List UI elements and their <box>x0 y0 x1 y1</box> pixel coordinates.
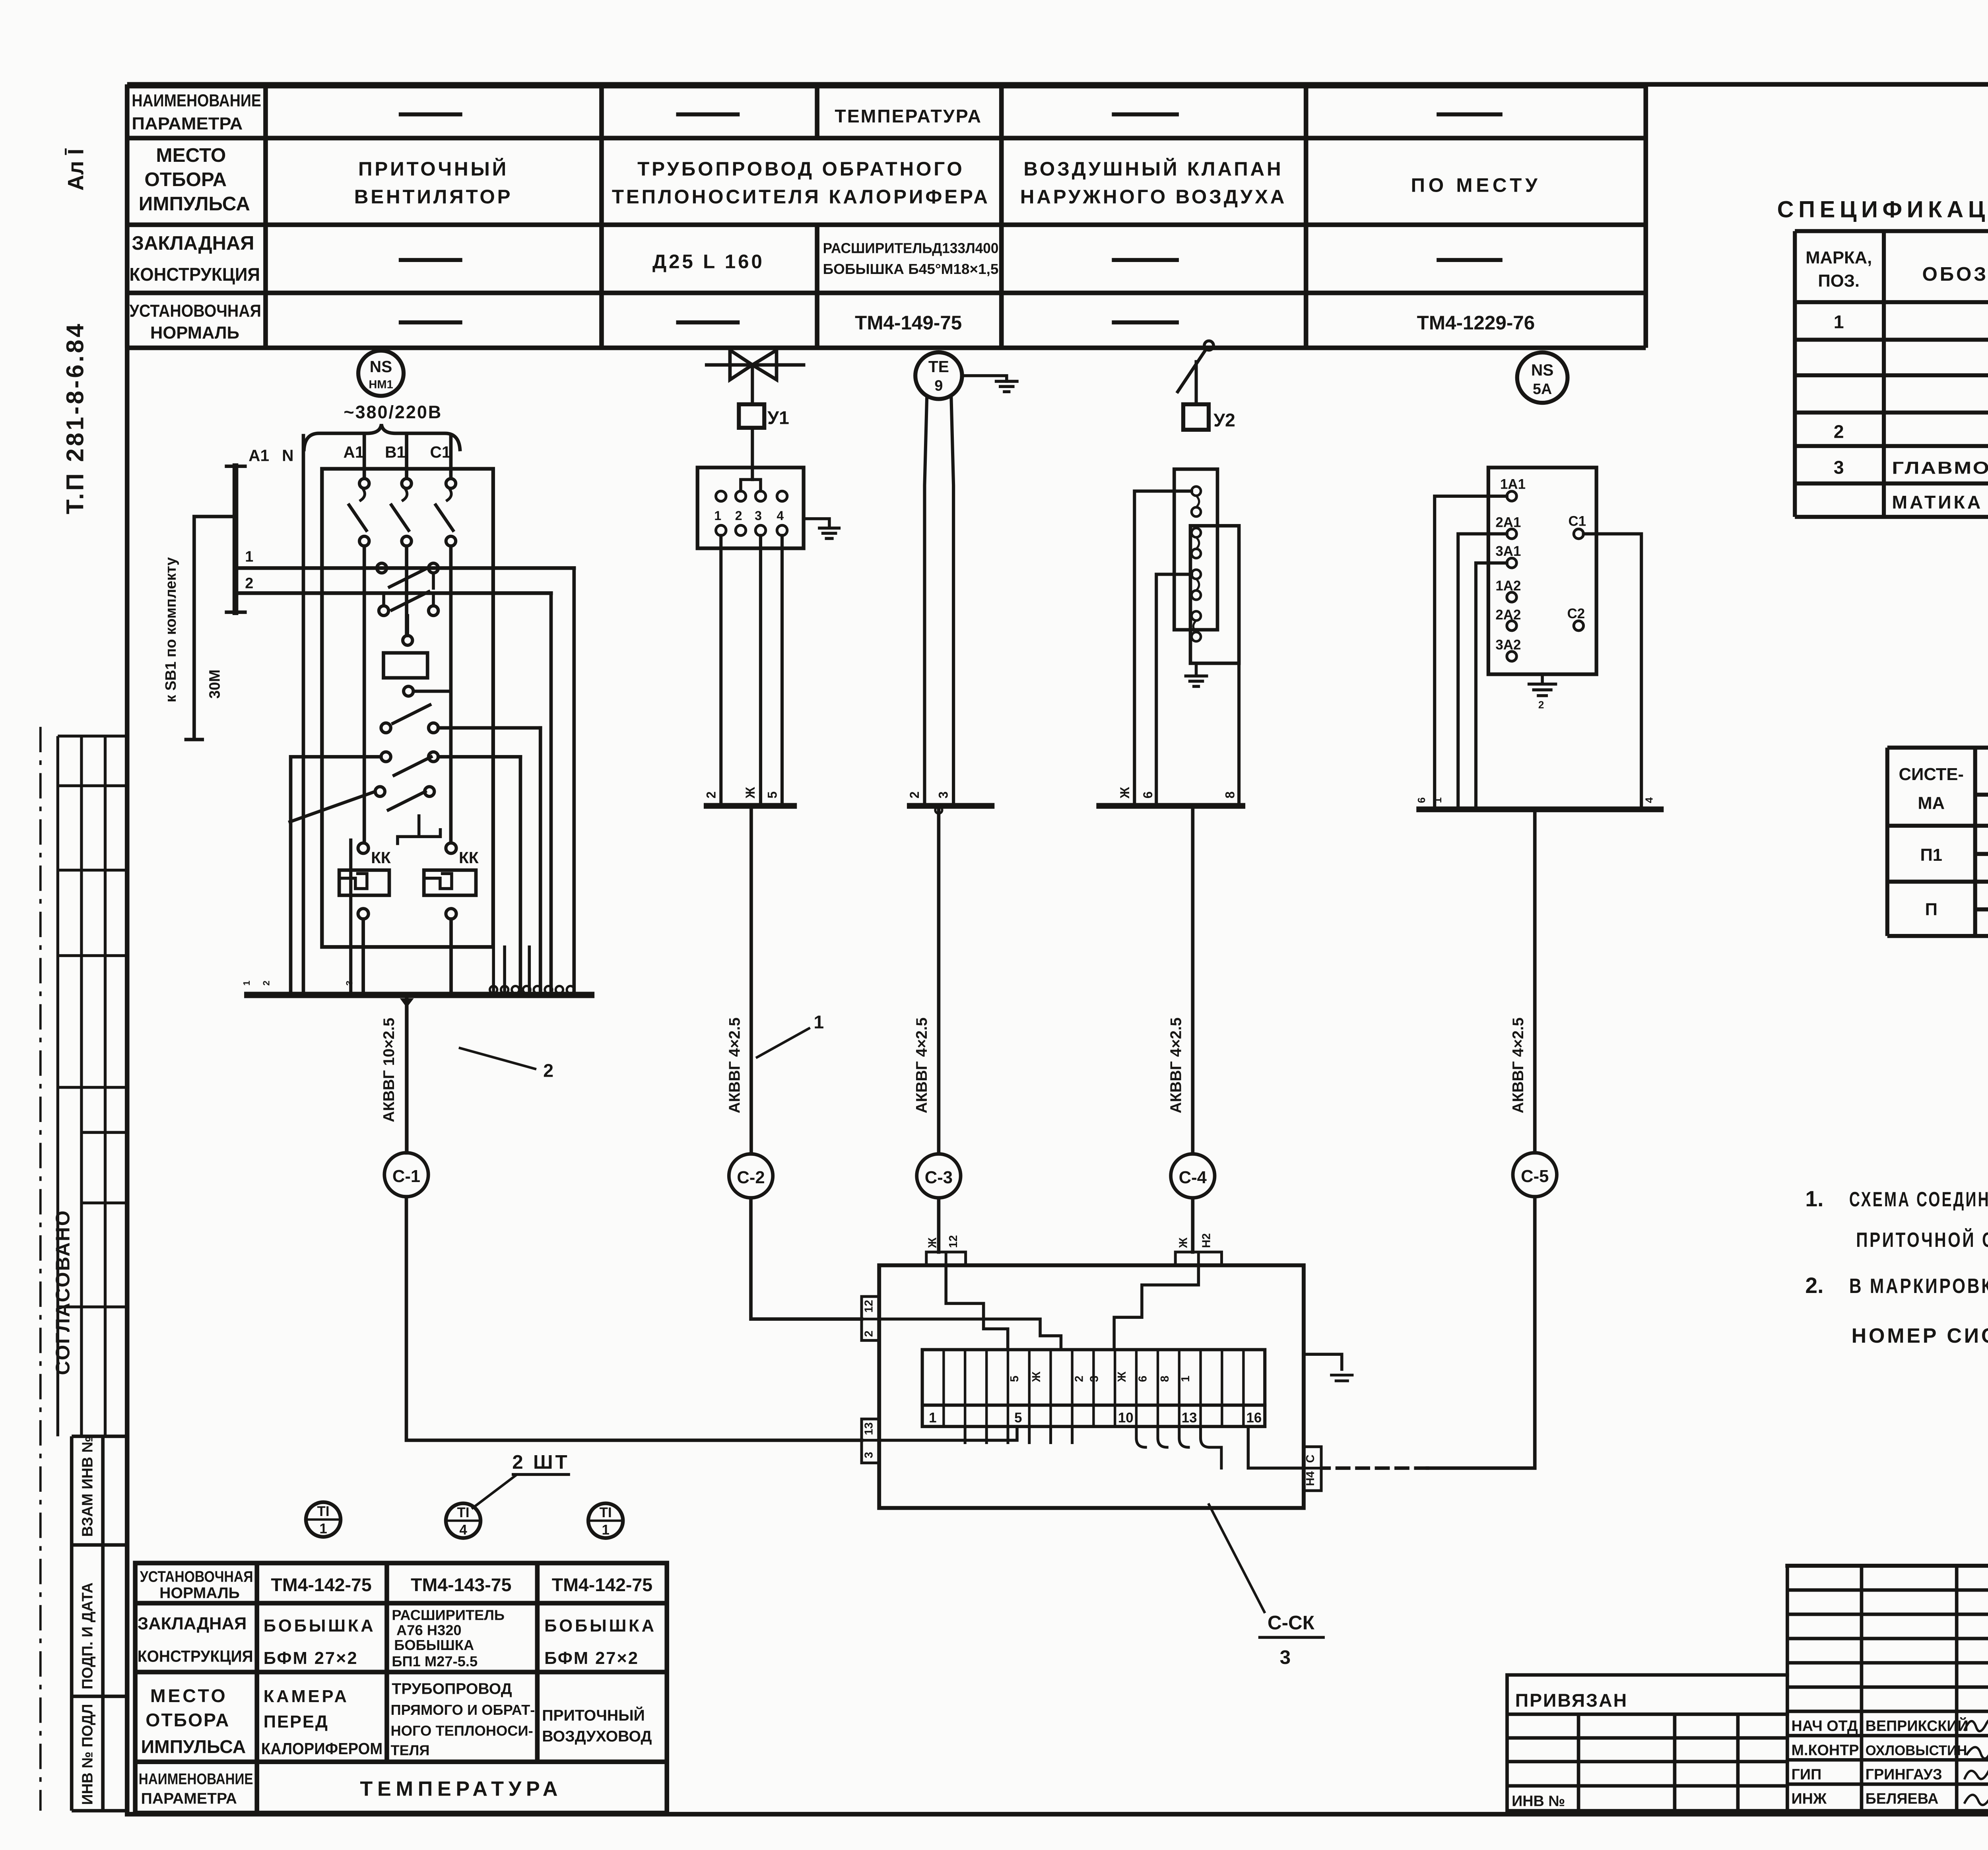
svg-text:4: 4 <box>777 509 784 523</box>
svg-text:С-СК: С-СК <box>1268 1612 1315 1634</box>
svg-text:5А: 5А <box>1533 381 1552 398</box>
svg-text:ИНВ №: ИНВ № <box>1512 1793 1565 1810</box>
sensor capillary wires down <box>924 396 953 806</box>
svg-text:С-1: С-1 <box>392 1167 420 1186</box>
terminal column box of У2 <box>1174 469 1217 630</box>
svg-text:С: С <box>1304 1454 1317 1463</box>
lower margin cells ВЗАМ ИНВ / ПОДП И ДАТА / ИНВ ПОДЛ <box>72 1437 127 1811</box>
svg-text:2: 2 <box>735 509 742 523</box>
wire pin4 down <box>782 536 783 806</box>
svg-text:1: 1 <box>241 980 252 986</box>
svg-text:3: 3 <box>344 980 355 986</box>
svg-text:КОНСТРУКЦИЯ: КОНСТРУКЦИЯ <box>138 1647 253 1665</box>
cable designator circle С-3 <box>917 1154 961 1198</box>
device circle NS HM1 (magnetic starter callout) <box>358 351 404 396</box>
svg-text:БФМ 27×2: БФМ 27×2 <box>544 1649 639 1668</box>
key switch box <box>1488 468 1596 674</box>
svg-text:КОНСТРУКЦИЯ: КОНСТРУКЦИЯ <box>130 264 260 285</box>
svg-text:БФМ 27×2: БФМ 27×2 <box>264 1649 358 1668</box>
svg-text:NS: NS <box>370 357 392 376</box>
entry tab С-3 on top <box>926 1252 966 1265</box>
svg-text:ТМ4-1229-76: ТМ4-1229-76 <box>1417 312 1535 334</box>
svg-text:БЕЛЯЕВА: БЕЛЯЕВА <box>1866 1791 1939 1807</box>
aux contact row 5 <box>375 787 385 796</box>
ground below У2 box <box>1186 663 1206 686</box>
svg-text:КК: КК <box>459 848 479 867</box>
cable С-5 drop <box>1534 809 1536 1153</box>
svg-text:НАИМЕНОВАНИЕ: НАИМЕНОВАНИЕ <box>139 1770 253 1788</box>
internal wire from С-2 tab <box>879 1319 1061 1350</box>
svg-text:БП1 М27-5.5: БП1 М27-5.5 <box>392 1653 478 1669</box>
svg-text:ПЕРЕД: ПЕРЕД <box>264 1712 329 1732</box>
dash row3 col4 <box>1112 259 1179 261</box>
svg-text:АКВВГ 4×2.5: АКВВГ 4×2.5 <box>1509 1017 1527 1113</box>
entry tab С-5 on right <box>1304 1447 1321 1491</box>
svg-text:ГРИНГАУЗ: ГРИНГАУЗ <box>1866 1767 1942 1783</box>
Table2 grid <box>1887 747 1988 936</box>
wire aux3 right to drop <box>438 727 540 728</box>
svg-text:3А1: 3А1 <box>1495 544 1521 559</box>
svg-text:АКВВГ 4×2.5: АКВВГ 4×2.5 <box>913 1017 930 1113</box>
svg-text:ИМПУЛЬСА: ИМПУЛЬСА <box>141 1736 246 1757</box>
svg-text:АКВВГ 4×2.5: АКВВГ 4×2.5 <box>726 1017 743 1113</box>
mechanical link symbol <box>398 816 441 844</box>
terminal strip cell dividers <box>944 1350 1243 1427</box>
overlapping box <box>1190 526 1239 663</box>
svg-text:ОТБОРА: ОТБОРА <box>144 169 227 190</box>
svg-text:ТЕПЛОНОСИТЕЛЯ КАЛОРИФЕРА: ТЕПЛОНОСИТЕЛЯ КАЛОРИФЕРА <box>612 186 990 208</box>
svg-text:РАСШИРИТЕЛЬД133Л400: РАСШИРИТЕЛЬД133Л400 <box>823 240 999 256</box>
dash row1 col5 <box>1437 114 1503 115</box>
svg-text:6: 6 <box>1141 791 1155 798</box>
wire 2А1 out left <box>1458 534 1507 809</box>
svg-text:БОБЫШКА: БОБЫШКА <box>264 1617 376 1636</box>
wire pin3 down <box>760 536 761 806</box>
svg-text:2: 2 <box>245 575 253 592</box>
ground symbol at sensor <box>996 381 1017 392</box>
svg-text:2: 2 <box>1538 699 1544 711</box>
svg-text:ПРИТОЧНЫЙ: ПРИТОЧНЫЙ <box>358 157 509 180</box>
svg-text:ОБОЗНАЧЕНИЕ: ОБОЗНАЧЕНИЕ <box>1922 263 1988 285</box>
exit wire right with ground <box>1304 1354 1342 1369</box>
svg-text:ЗАКЛАДНАЯ: ЗАКЛАДНАЯ <box>132 232 254 254</box>
svg-text:СИСТЕ-: СИСТЕ- <box>1899 765 1964 784</box>
svg-text:ВОЗДУХОВОД: ВОЗДУХОВОД <box>542 1728 652 1745</box>
contactor contact pair row 1 <box>377 563 386 573</box>
leader to mark 1 <box>757 1029 809 1058</box>
svg-text:С-3: С-3 <box>925 1168 953 1187</box>
svg-text:2А1: 2А1 <box>1495 514 1521 530</box>
svg-text:СХЕМА СОЕДИНЕНИЙ ВНЕШНИХ ПРОВО: СХЕМА СОЕДИНЕНИЙ ВНЕШНИХ ПРОВОДОК СОСТАВ… <box>1849 1188 1988 1211</box>
svg-text:5: 5 <box>1008 1376 1021 1382</box>
valve symbol for У1 <box>707 364 804 365</box>
dash row4 col3L <box>676 322 740 323</box>
svg-text:N: N <box>282 446 293 465</box>
junction box КСК-16 outline <box>879 1265 1304 1508</box>
svg-text:Ж: Ж <box>1118 786 1132 799</box>
svg-text:30М: 30М <box>206 670 223 699</box>
svg-text:УСТАНОВОЧНАЯ: УСТАНОВОЧНАЯ <box>140 1568 253 1586</box>
svg-text:2: 2 <box>543 1060 553 1081</box>
instrument circle TI 1 (third) <box>588 1503 623 1538</box>
svg-text:1: 1 <box>929 1410 936 1426</box>
svg-text:С-2: С-2 <box>737 1168 765 1187</box>
internal wire from С-5 tab <box>1248 1427 1304 1468</box>
wire С1 out right <box>1584 534 1642 809</box>
right side drop wires to terminal bus <box>520 568 574 992</box>
ground tail of connector <box>804 519 829 528</box>
svg-text:МАРКА,: МАРКА, <box>1806 248 1872 268</box>
extra stub wires from box bottom to bus <box>493 947 529 992</box>
thermal relay KK1 <box>358 843 369 853</box>
title block top border <box>1787 1565 1988 1567</box>
internal wire from С-4 tab <box>1114 1265 1198 1349</box>
svg-text:У1: У1 <box>767 408 789 428</box>
ground symbol at connector <box>819 528 839 538</box>
svg-text:ТРУБОПРОВОД ОБРАТНОГО: ТРУБОПРОВОД ОБРАТНОГО <box>637 158 965 180</box>
wire 3А1 out left <box>1476 563 1507 809</box>
dash row1 col2 <box>399 114 462 115</box>
svg-text:ПРЯМОГО И ОБРАТ-: ПРЯМОГО И ОБРАТ- <box>390 1702 535 1718</box>
svg-text:ПАРАМЕТРА: ПАРАМЕТРА <box>141 1790 237 1807</box>
terminal strip lower band <box>922 1405 1265 1427</box>
svg-text:С1: С1 <box>430 443 450 461</box>
svg-text:ТI: ТI <box>457 1505 470 1520</box>
svg-text:Ал Ī: Ал Ī <box>63 148 88 190</box>
jumper stubs below strip <box>965 1427 1072 1443</box>
svg-text:МЕСТО: МЕСТО <box>150 1685 228 1706</box>
svg-text:2: 2 <box>1834 421 1844 442</box>
ground tail of sensor <box>962 376 1007 381</box>
curly brace over supply wires <box>304 424 460 450</box>
svg-text:3: 3 <box>1834 457 1844 478</box>
svg-text:1А2: 1А2 <box>1495 578 1521 594</box>
svg-text:АКВВГ 4×2.5: АКВВГ 4×2.5 <box>1167 1017 1185 1113</box>
svg-text:РАСШИРИТЕЛЬ: РАСШИРИТЕЛЬ <box>392 1607 505 1623</box>
svg-text:2: 2 <box>1073 1376 1086 1382</box>
svg-text:1: 1 <box>1179 1376 1192 1382</box>
svg-text:Ж: Ж <box>1030 1371 1043 1382</box>
svg-text:У2: У2 <box>1213 410 1235 430</box>
dashed tail of С-5 wire <box>1323 1468 1427 1469</box>
instrument circle TI 1 (first) <box>306 1502 340 1537</box>
cable designator circle С-1 <box>384 1153 428 1196</box>
knife switch pole C1 <box>450 436 451 479</box>
connector top pin circles <box>716 491 787 501</box>
svg-text:НОРМАЛЬ: НОРМАЛЬ <box>150 324 239 343</box>
vertical from link to box bottom <box>350 840 351 995</box>
svg-text:1: 1 <box>602 1522 609 1538</box>
svg-text:5: 5 <box>765 791 779 798</box>
svg-text:ВЕПРИКСКИЙ: ВЕПРИКСКИЙ <box>1866 1718 1969 1735</box>
svg-text:ИМПУЛЬСА: ИМПУЛЬСА <box>139 193 250 215</box>
wire N <box>303 436 304 995</box>
connector bottom pin circles <box>716 525 787 536</box>
terminal bar У1 <box>707 805 794 807</box>
svg-text:1: 1 <box>1432 797 1444 803</box>
internal arch link pins 2-3 <box>741 479 761 491</box>
svg-text:ТI: ТI <box>317 1504 330 1519</box>
contactor coil <box>403 635 412 645</box>
svg-text:ТМ4-142-75: ТМ4-142-75 <box>552 1574 652 1595</box>
terminal circles on bus <box>490 986 574 994</box>
wire У1 to connector <box>752 428 753 479</box>
wire coil to pole C1 <box>413 691 450 692</box>
svg-text:В МАРКИРОВКЕ КАБЕЛЕЙ ВМЕСТО ИН: В МАРКИРОВКЕ КАБЕЛЕЙ ВМЕСТО ИНДЕКСА „С“ … <box>1849 1274 1988 1298</box>
svg-text:Ж: Ж <box>743 786 757 799</box>
terminal bus bottom <box>247 994 591 996</box>
svg-text:5: 5 <box>1014 1410 1022 1426</box>
svg-text:НОГО ТЕПЛОНОСИ-: НОГО ТЕПЛОНОСИ- <box>390 1722 533 1739</box>
dash row1 col3L <box>676 114 740 115</box>
svg-text:12: 12 <box>863 1300 876 1312</box>
svg-text:ПАРАМЕТРА: ПАРАМЕТРА <box>132 115 243 134</box>
thermal relay KK2 <box>446 843 456 853</box>
ПРИВЯЗАН block grid <box>1507 1675 1988 1811</box>
svg-text:КАМЕРА: КАМЕРА <box>264 1687 349 1706</box>
svg-text:Д25 L 160: Д25 L 160 <box>652 250 765 272</box>
terminal strip upper band <box>922 1350 1265 1405</box>
svg-text:2А2: 2А2 <box>1495 607 1521 623</box>
svg-text:8: 8 <box>1159 1376 1171 1382</box>
svg-text:БОБЫШКА Б45°М18×1,5: БОБЫШКА Б45°М18×1,5 <box>823 261 999 277</box>
svg-text:ТМ4-142-75: ТМ4-142-75 <box>271 1574 371 1595</box>
svg-text:Ж: Ж <box>1177 1237 1190 1248</box>
svg-text:1А1: 1А1 <box>1500 476 1526 492</box>
svg-text:2: 2 <box>704 791 718 798</box>
top table col3 sub-divider rows 1,3,4 <box>816 86 818 348</box>
svg-text:9: 9 <box>934 377 943 394</box>
svg-text:12: 12 <box>947 1235 960 1248</box>
svg-text:2 ШТ: 2 ШТ <box>512 1451 569 1473</box>
svg-text:ПО МЕСТУ: ПО МЕСТУ <box>1411 174 1541 196</box>
svg-text:ТЕЛЯ: ТЕЛЯ <box>390 1742 429 1759</box>
svg-text:БОБЫШКА: БОБЫШКА <box>394 1637 474 1653</box>
wire right side drop <box>1239 543 1240 806</box>
svg-text:~380/220В: ~380/220В <box>344 402 442 422</box>
dash row3 col5 <box>1437 259 1503 261</box>
svg-text:6: 6 <box>1415 797 1427 803</box>
svg-text:П: П <box>1925 900 1938 919</box>
svg-text:ТЕМПЕРАТУРА: ТЕМПЕРАТУРА <box>360 1777 562 1800</box>
leader 2ШТ to TI4 <box>473 1475 516 1508</box>
dash row1 col4 <box>1112 114 1179 115</box>
svg-text:М.КОНТР: М.КОНТР <box>1792 1742 1859 1759</box>
cable designator circle С-5 <box>1513 1153 1557 1196</box>
device circle NS 5A <box>1517 352 1568 403</box>
svg-text:2: 2 <box>261 980 271 986</box>
wire terminal 1 horizontal <box>235 567 574 569</box>
wire pin1 down <box>720 536 722 806</box>
wire mid contact to left drop <box>1156 574 1192 806</box>
svg-text:С-5: С-5 <box>1521 1167 1549 1186</box>
dash row4 col4 <box>1112 322 1179 323</box>
svg-text:1: 1 <box>319 1521 327 1537</box>
svg-text:ТМ4-143-75: ТМ4-143-75 <box>411 1574 511 1595</box>
svg-text:ТРУБОПРОВОД: ТРУБОПРОВОД <box>392 1680 512 1698</box>
svg-text:1: 1 <box>813 1012 824 1033</box>
wire С-1 below circle to junction box <box>406 1197 862 1440</box>
svg-text:СПЕЦИФИКАЦИЯ ЭЛЕМЕНТОВ СИСТЕМЫ: СПЕЦИФИКАЦИЯ ЭЛЕМЕНТОВ СИСТЕМЫП1 <box>1777 196 1988 222</box>
svg-text:2: 2 <box>863 1330 876 1337</box>
solenoid box У2 <box>1183 404 1209 430</box>
cable С-3 drop <box>938 806 939 1154</box>
internal wire from С-3 tab <box>946 1265 1008 1349</box>
wire top contact to left drop <box>1134 491 1192 806</box>
svg-text:4: 4 <box>1643 797 1655 803</box>
svg-text:10: 10 <box>1118 1410 1134 1426</box>
branch to SB1 with bracket <box>186 516 235 740</box>
Table1 grid <box>1795 231 1988 517</box>
terminal bar У2 <box>1099 805 1242 807</box>
svg-text:ТМ4-149-75: ТМ4-149-75 <box>855 312 962 334</box>
leader line to mark 2 <box>460 1048 535 1069</box>
wire С-4 below circle into box top <box>1192 1198 1193 1252</box>
vertical chain of contact circles <box>1192 487 1201 641</box>
svg-text:П1: П1 <box>1920 846 1942 865</box>
instrument circle TI 4 <box>446 1503 480 1538</box>
chain squiggle links <box>1193 496 1199 632</box>
svg-text:ТЕМПЕРАТУРА: ТЕМПЕРАТУРА <box>835 106 982 126</box>
svg-text:БОБЫШКА: БОБЫШКА <box>544 1617 656 1636</box>
svg-text:1: 1 <box>1834 311 1844 332</box>
svg-text:ОХЛОВЫСТИН: ОХЛОВЫСТИН <box>1866 1743 1967 1759</box>
svg-text:13: 13 <box>863 1422 876 1435</box>
wire С-5 below circle to box right side <box>1427 1197 1535 1468</box>
svg-text:ПРИВЯЗАН: ПРИВЯЗАН <box>1515 1690 1628 1711</box>
leader line С-СК <box>1209 1504 1265 1612</box>
svg-text:ВЗАМ ИНВ №: ВЗАМ ИНВ № <box>80 1436 96 1537</box>
svg-text:3А2: 3А2 <box>1495 637 1521 652</box>
svg-text:НАРУЖНОГО ВОЗДУХА: НАРУЖНОГО ВОЗДУХА <box>1020 186 1287 208</box>
svg-text:АКВВГ 10×2.5: АКВВГ 10×2.5 <box>380 1018 398 1122</box>
svg-text:13: 13 <box>1182 1410 1197 1426</box>
svg-text:НАИМЕНОВАНИЕ: НАИМЕНОВАНИЕ <box>132 91 261 110</box>
svg-text:ИНЖ: ИНЖ <box>1792 1791 1827 1807</box>
svg-text:УСТАНОВОЧНАЯ: УСТАНОВОЧНАЯ <box>130 301 261 320</box>
cable designator circle С-4 <box>1171 1154 1215 1198</box>
svg-text:НМ1: НМ1 <box>369 379 393 391</box>
wire С-3 below circle into box top <box>938 1198 939 1252</box>
terminal bar NS5A <box>1419 808 1661 810</box>
svg-text:ТI: ТI <box>600 1505 612 1520</box>
internal wire from С-1 tab <box>879 1427 1017 1440</box>
svg-text:КАЛОРИФЕРОМ: КАЛОРИФЕРОМ <box>261 1739 382 1758</box>
entry tab С-2 on left <box>862 1297 879 1340</box>
svg-text:МАТИКА: МАТИКА <box>1892 492 1983 512</box>
entry tab С-4 on top <box>1175 1252 1221 1265</box>
svg-text:8: 8 <box>1223 791 1237 798</box>
svg-text:СОГЛАСОВАНО: СОГЛАСОВАНО <box>52 1209 74 1375</box>
svg-text:3: 3 <box>1280 1646 1291 1668</box>
svg-text:С1: С1 <box>1569 513 1586 529</box>
terminal bar ТЕ <box>910 805 992 807</box>
svg-text:ПРИТОЧНЫЙ: ПРИТОЧНЫЙ <box>542 1706 645 1724</box>
left margin strip grid <box>58 736 126 1436</box>
svg-text:1: 1 <box>245 548 253 565</box>
svg-text:3: 3 <box>1088 1376 1101 1382</box>
svg-text:НОРМАЛЬ: НОРМАЛЬ <box>159 1584 240 1602</box>
svg-text:ТЕ: ТЕ <box>928 357 949 376</box>
svg-text:КК: КК <box>371 848 391 867</box>
svg-text:НАЧ ОТД: НАЧ ОТД <box>1792 1718 1858 1735</box>
wire terminal 2 horizontal <box>235 592 551 594</box>
svg-text:А1: А1 <box>248 446 269 465</box>
dash row3 col2 <box>399 259 462 261</box>
knife switch pole A1 <box>364 436 365 479</box>
starter enclosure box <box>322 469 493 947</box>
junction dot <box>935 807 942 813</box>
entry tab С-1 on left lower <box>862 1419 879 1463</box>
svg-text:NS: NS <box>1531 361 1554 379</box>
svg-text:3: 3 <box>863 1452 876 1458</box>
svg-text:Т.П 281-8-6.84: Т.П 281-8-6.84 <box>61 322 88 514</box>
svg-text:ИНВ № ПОДЛ: ИНВ № ПОДЛ <box>80 1704 96 1805</box>
svg-text:3: 3 <box>755 509 762 523</box>
svg-text:МЕСТО: МЕСТО <box>156 144 226 166</box>
wire 1А1 out left <box>1435 496 1507 809</box>
contactor contact pair row 2 <box>379 606 388 615</box>
svg-text:А76 Н320: А76 Н320 <box>396 1622 462 1638</box>
svg-text:А1: А1 <box>343 443 364 461</box>
wire aux4 right run <box>438 756 520 757</box>
svg-text:НОМЕР СИСТЕМЫ СОГЛАСНО ТАБЛ.: НОМЕР СИСТЕМЫ СОГЛАСНО ТАБЛ. 2 <box>1852 1324 1988 1347</box>
svg-text:к SB1 по комплекту: к SB1 по комплекту <box>163 557 179 702</box>
central signature grid stack <box>1787 1566 1988 1811</box>
svg-text:2: 2 <box>907 791 922 798</box>
svg-text:ЗАКЛАДНАЯ: ЗАКЛАДНАЯ <box>138 1614 247 1633</box>
svg-text:ПРИТОЧНОЙ СИСТЕМЫ И ПРИМЕНИМА: ПРИТОЧНОЙ СИСТЕМЫ И ПРИМЕНИМА ДЛЯ СИСТЕМ… <box>1856 1228 1988 1252</box>
cable С-2 drop <box>751 806 752 1154</box>
svg-text:1: 1 <box>714 509 721 523</box>
temperature sensor circle ТЕ 9 <box>915 352 962 399</box>
cable C-1 drop from bus <box>400 998 414 1008</box>
stub links row1-row2 contacts <box>384 573 433 636</box>
svg-text:ГИП: ГИП <box>1792 1767 1822 1783</box>
svg-text:С-4: С-4 <box>1179 1168 1207 1187</box>
svg-text:С2: С2 <box>1567 606 1585 621</box>
svg-text:4: 4 <box>459 1522 467 1538</box>
wire aux4 left run and drop <box>291 757 381 995</box>
svg-text:Ж: Ж <box>926 1237 939 1248</box>
left margin dash-dot border line <box>40 727 41 1811</box>
aux contact row 4 <box>381 752 390 761</box>
bus A1 vertical with end ticks <box>235 466 237 612</box>
bottom left table grid <box>135 1563 667 1813</box>
svg-text:ПОЗ.: ПОЗ. <box>1818 272 1860 291</box>
svg-text:16: 16 <box>1246 1410 1262 1426</box>
solenoid box У1 <box>739 404 764 428</box>
svg-text:Ж: Ж <box>1116 1371 1128 1382</box>
svg-text:ВЕНТИЛЯТОР: ВЕНТИЛЯТОР <box>354 186 513 208</box>
svg-text:Н2: Н2 <box>1200 1233 1213 1248</box>
svg-text:ПОДП. И ДАТА: ПОДП. И ДАТА <box>80 1582 96 1689</box>
dash row4 col2 <box>399 322 462 323</box>
svg-text:2.: 2. <box>1805 1273 1823 1298</box>
svg-text:ГЛАВМОНТАЖАВТО-: ГЛАВМОНТАЖАВТО- <box>1892 459 1988 478</box>
cable designator circle С-2 <box>729 1154 773 1198</box>
jumper hooks below strip <box>1136 1427 1221 1468</box>
svg-text:Н4: Н4 <box>1304 1471 1317 1486</box>
connector box of У1 <box>697 468 804 548</box>
svg-text:6: 6 <box>1137 1376 1149 1382</box>
svg-text:1.: 1. <box>1805 1186 1823 1211</box>
wire valve to solenoid У1 <box>752 365 753 404</box>
knife switch pole B1 <box>406 436 407 479</box>
wire С-2 below circle to junction box <box>751 1198 862 1319</box>
svg-text:ВОЗДУШНЫЙ КЛАПАН: ВОЗДУШНЫЙ КЛАПАН <box>1023 157 1283 180</box>
slanted wire to aux5 <box>290 792 375 822</box>
